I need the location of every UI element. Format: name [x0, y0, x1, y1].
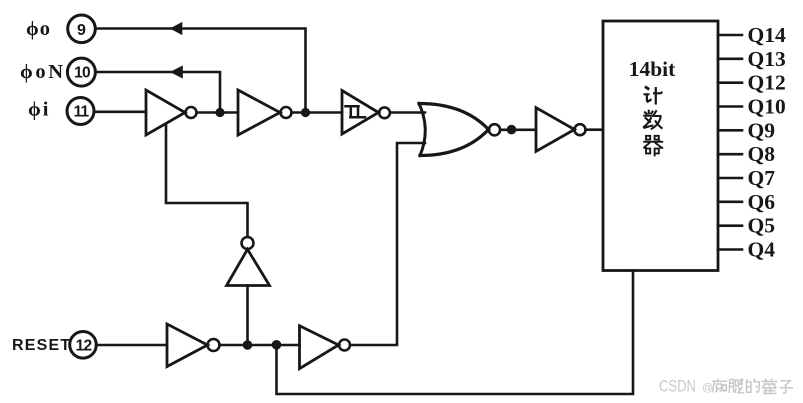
inverter U8: [167, 324, 220, 367]
svg-text:Q10: Q10: [748, 95, 786, 119]
pin 12 circle: [70, 332, 97, 359]
hanzi ji (count): [644, 87, 663, 105]
pin 9 circle: [68, 15, 96, 43]
svg-text:Q5: Q5: [748, 214, 775, 238]
label phi-oN: [20, 61, 66, 83]
wire U7 input from reset line: [246, 286, 249, 346]
svg-text:Q6: Q6: [748, 190, 776, 214]
wire U6 to counter clock input: [586, 128, 604, 131]
inverter U7 (points up): [227, 237, 270, 286]
wire U8 output to U9: [220, 344, 300, 347]
arrowhead on phi-o wire: [170, 22, 183, 35]
svg-text:Q12: Q12: [748, 71, 786, 95]
wire reset to inverter U8: [96, 344, 167, 347]
node A junction dot: [215, 108, 224, 117]
node C junction dot: [507, 125, 517, 135]
node D2 junction dot: [272, 340, 282, 350]
sub input wire from U1 lower edge to inverter U7: [166, 124, 248, 237]
inverter U1: [146, 90, 197, 135]
svg-text:12: 12: [76, 338, 92, 355]
svg-text:Q14: Q14: [748, 23, 786, 47]
watermark hanzi 2: [729, 380, 744, 393]
svg-text:ϕi: ϕi: [28, 99, 51, 121]
wire U1 output to U2: [197, 111, 239, 114]
svg-text:RESET: RESET: [12, 337, 71, 354]
svg-text:11: 11: [74, 104, 90, 121]
label RESET: [12, 337, 71, 354]
wire U2 output to schmitt U3: [292, 111, 343, 114]
counter block: [603, 21, 718, 271]
schmitt inverter U3: [342, 91, 390, 135]
watermark hanzi 4: [762, 379, 778, 394]
wire NOR output to inverter U6: [500, 129, 536, 132]
svg-text:Q8: Q8: [748, 142, 776, 166]
svg-text:Q13: Q13: [748, 47, 786, 71]
svg-text:14bit: 14bit: [629, 57, 676, 81]
output labels Q14..Q4: [748, 23, 786, 262]
svg-text:CSDN: CSDN: [659, 378, 696, 396]
watermark hanzi 5: [780, 381, 793, 394]
wire node D2 to counter bottom: [277, 271, 634, 394]
NOR gate U5: [419, 104, 500, 156]
svg-text:Q4: Q4: [748, 238, 776, 262]
svg-text:Q9: Q9: [748, 118, 775, 142]
svg-text:ϕo: ϕo: [26, 18, 51, 40]
watermark CSDN: [659, 378, 713, 396]
inverter U6: [536, 108, 586, 152]
counter label 14bit: [629, 57, 676, 81]
svg-text:ϕoN: ϕoN: [20, 61, 66, 83]
pin 10 circle: [67, 58, 95, 86]
label phi-o: [26, 18, 51, 40]
arrowhead on phi-oN wire: [170, 65, 183, 78]
label phi-i: [28, 99, 51, 121]
watermark hanzi (approximate strokes): [712, 379, 793, 394]
pin 11 circle: [67, 98, 94, 125]
wire phi-oN to node A: [96, 72, 221, 108]
wire phi-i to inverter U1: [94, 111, 146, 114]
counter output ticks: [718, 34, 742, 37]
wire phi-o to node B: [96, 29, 306, 109]
svg-text:Q7: Q7: [748, 166, 776, 190]
hanzi shu (number): [643, 110, 662, 129]
node D1 junction dot: [243, 340, 253, 350]
hanzi qi (device): [643, 136, 663, 157]
wire schmitt to NOR top input: [390, 111, 425, 114]
svg-text:@: @: [702, 382, 713, 394]
svg-text:9: 9: [77, 22, 86, 39]
node B junction dot: [301, 108, 310, 117]
watermark hanzi 3: [746, 379, 759, 393]
svg-text:10: 10: [74, 65, 90, 82]
inverter U2: [238, 90, 292, 135]
inverter U9: [300, 326, 351, 369]
wire U9 output up to NOR lower input: [350, 143, 425, 345]
watermark hanzi 1: [712, 379, 727, 393]
